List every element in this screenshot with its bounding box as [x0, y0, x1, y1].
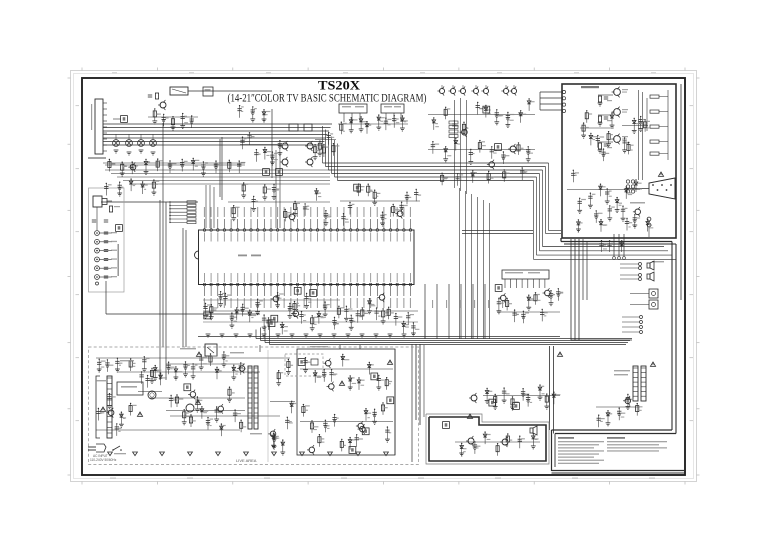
svg-text:LIVE AREA: LIVE AREA [236, 458, 257, 463]
svg-text:(14-21″COLOR TV BASIC SCHEMAT: (14-21″COLOR TV BASIC SCHEMATIC DIAGRAM) [228, 93, 427, 105]
svg-text:110-240V 50/60Hz: 110-240V 50/60Hz [90, 458, 117, 462]
svg-text:TS20X: TS20X [318, 79, 361, 93]
